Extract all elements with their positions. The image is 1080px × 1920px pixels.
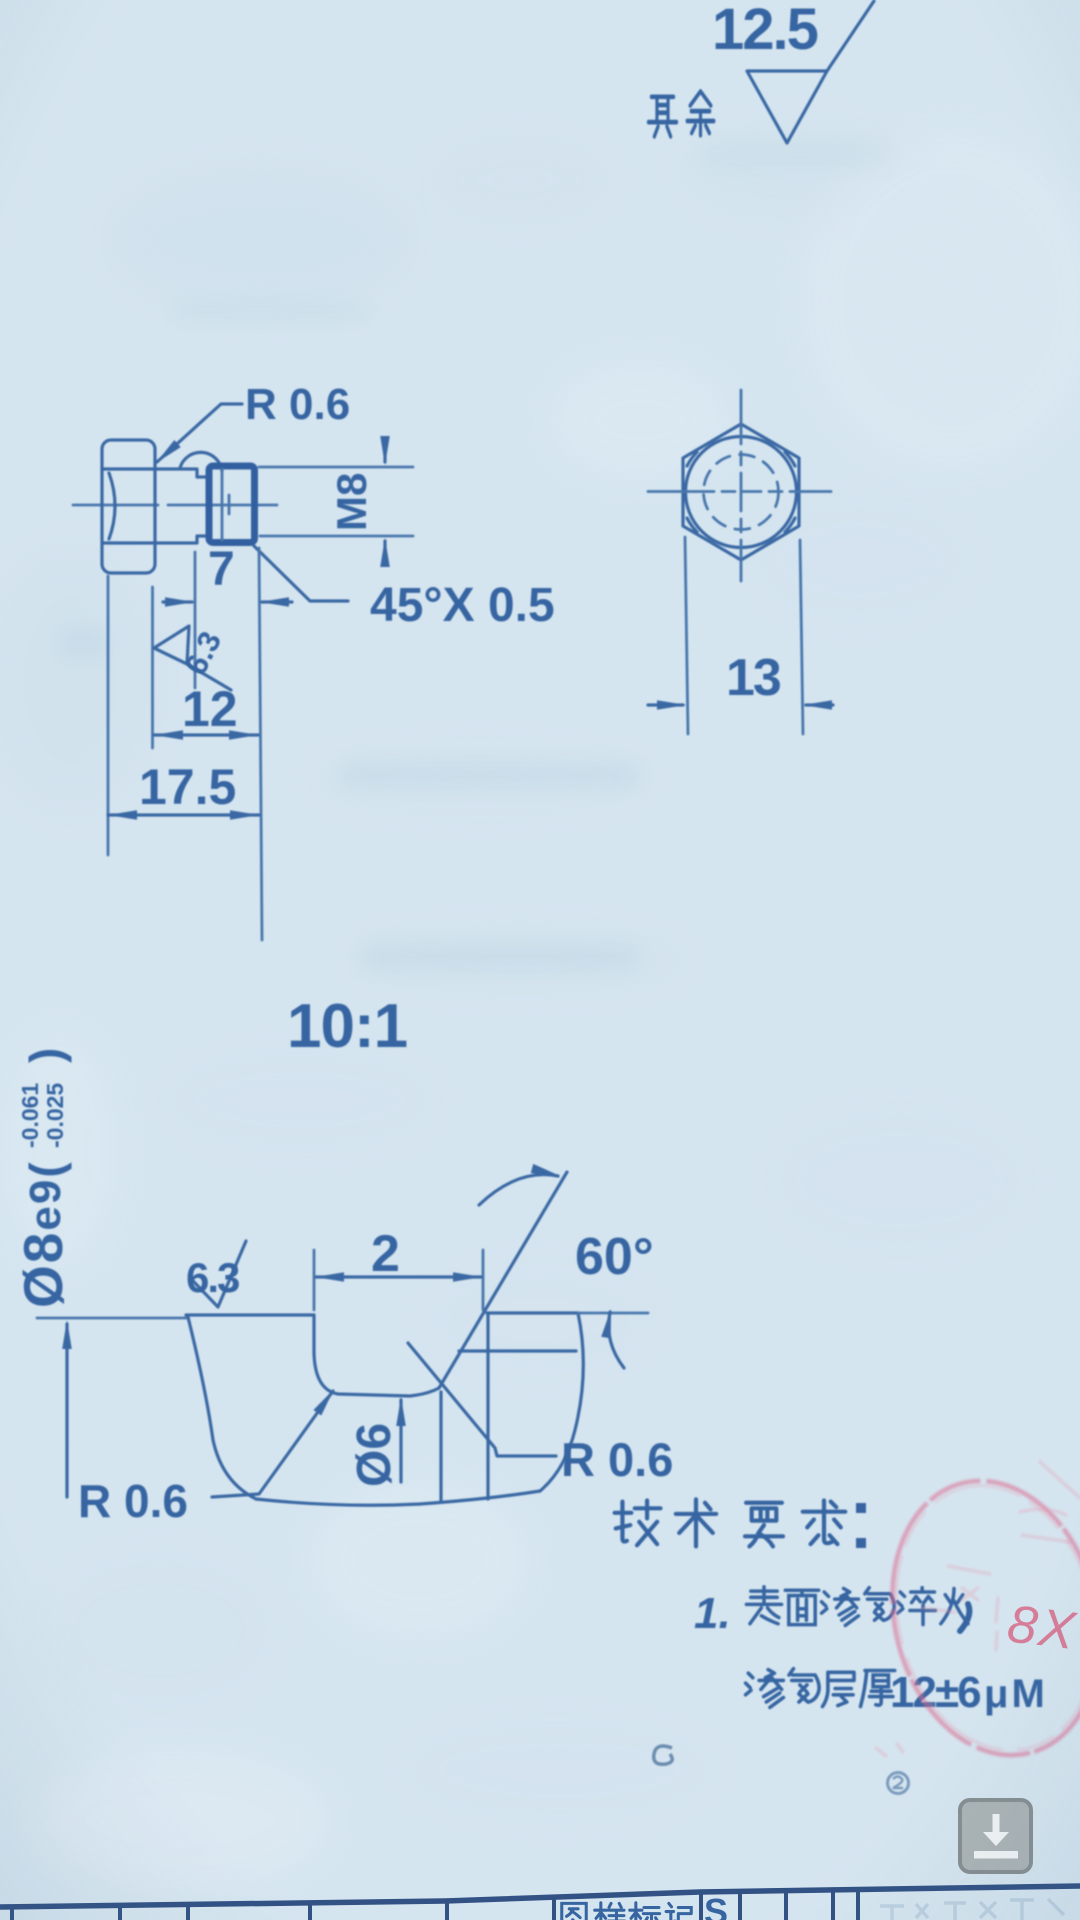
dimension M8: extension lines [259,467,413,536]
pencil circled-2 mark [888,1773,909,1794]
hex head chamfer arc [109,473,115,539]
dimension Ø8: arrow line [65,1324,68,1497]
detail view: top surface extension (thin) [578,1312,648,1315]
extension lines below bolt [108,548,262,940]
dimension Ø6: arrow [399,1400,402,1482]
note 技术要求: [615,1499,846,1546]
hex end view: hexagon [683,424,799,560]
detail view: left break curve [188,1317,256,1499]
angle 60°: arc arrow at surface [609,1312,624,1368]
dimension 13: arrows [648,703,833,706]
title block vertical ticks [12,1888,858,1920]
download button [960,1800,1031,1872]
detail view: right top surface [487,1311,578,1314]
detail view: inner horizontal line [459,1349,576,1352]
note text 其余 [648,97,676,137]
dimension 13: extension lines [685,537,803,734]
comma [960,1604,969,1631]
hex end view: thread dashed circle [704,455,779,530]
detail view: inner vertical lines [441,1315,488,1501]
download icon bar [974,1851,1018,1859]
leader R0.6 right [408,1343,556,1456]
dimension 17.5 [108,813,259,816]
leader R 0.6 (head fillet) [157,404,242,462]
detail view: 60° flank and its extension [439,1172,567,1388]
roughness mark 6.3 on groove [154,626,231,690]
runout arc over shank [180,452,222,471]
bolt side view: centerline [73,504,277,507]
dimension M8: arrows [383,438,386,565]
detail view: left top surface [186,1313,314,1316]
detail view: bottom break line [256,1491,540,1505]
title block text 图样标记 (cut off) [562,1903,691,1920]
detail view: groove bottom with fillets [314,1353,439,1396]
thread runout line [221,469,224,540]
roughness mark 6.3 on detail surface [193,1241,246,1307]
red stamp ellipse [864,1459,1080,1778]
hex end view: center lines [740,390,743,581]
surface finish note: triangle symbol (其余 12.5) [747,1,874,143]
stamp faint squiggles [876,1462,1080,1756]
note line 2: 渗氮层厚12±6μM [746,1669,895,1708]
pencil curl mark [654,1746,673,1764]
title block faint right text [880,1899,1064,1920]
center tick in thread [228,495,231,514]
dimension 12 [154,733,258,736]
colon of 技术要求 [856,1503,866,1513]
dimension 2: line and arrows [316,1275,481,1278]
detail view: extension to Ø8 arrow [37,1317,186,1320]
leader 45°X0.5 (chamfer) [254,546,348,601]
detail view: right break curve [540,1313,583,1491]
threaded section M8 (thick outline) [209,466,255,543]
faint ghost smudge under bolt [60,140,890,972]
hex end view: corner chamfer arcs [687,452,795,532]
leader R0.6 left [212,1391,333,1497]
angle 60°: arc with arrow [479,1175,558,1205]
groove (neck relief) [197,469,209,543]
dimension 7: outside arrows [163,600,292,603]
label Ø8e9 with tolerances (rotated) [12,1048,74,1308]
bolt side view: hex head [102,440,155,573]
hex end view: inscribed circle [686,437,797,548]
detail view: groove left wall [312,1315,315,1353]
title block top line [0,1886,1080,1907]
download icon arrow [993,1814,1000,1833]
dimension 2: extension lines [314,1250,483,1310]
hex head facet lines [102,469,196,543]
